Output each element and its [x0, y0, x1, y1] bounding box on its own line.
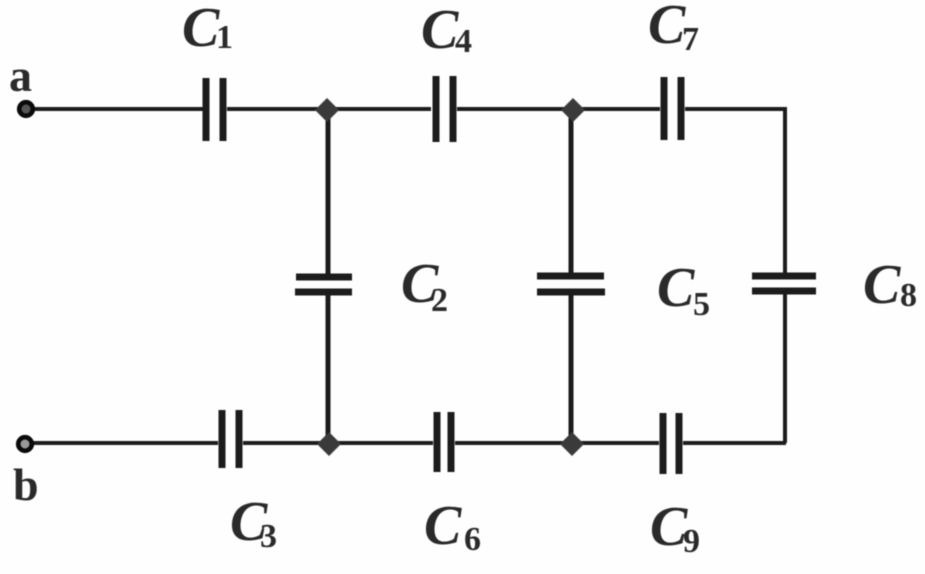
svg-text:6: 6	[464, 521, 481, 558]
wire bottom segment C6-C9	[455, 441, 659, 445]
wire top segment a-C1	[30, 107, 203, 111]
wire top segment C7-corner	[685, 107, 787, 111]
wire bottom segment b-C3	[30, 441, 218, 445]
capacitor C4	[436, 76, 453, 142]
wire top segment C4-C7	[457, 107, 660, 111]
wire vertical branch C8 lower	[783, 292, 787, 443]
label a	[9, 50, 32, 101]
svg-text:5: 5	[693, 286, 710, 323]
junction node top-right	[561, 98, 585, 122]
junction node top-left	[315, 98, 339, 122]
terminal b	[18, 437, 32, 451]
wire top segment C1-C4	[227, 107, 431, 111]
capacitor C8	[752, 276, 816, 291]
label C4	[421, 0, 472, 61]
svg-text:1: 1	[216, 19, 233, 56]
svg-text:b: b	[13, 459, 39, 510]
svg-text:C: C	[648, 0, 686, 56]
svg-text:8: 8	[900, 277, 917, 314]
svg-text:a: a	[9, 50, 32, 101]
capacitor C3	[222, 410, 239, 468]
svg-text:C: C	[863, 254, 901, 316]
svg-text:9: 9	[683, 523, 700, 560]
label b	[13, 459, 39, 510]
label C1	[182, 0, 233, 59]
svg-text:2: 2	[431, 282, 448, 319]
capacitor C5	[537, 276, 605, 292]
wire vertical branch C5 lower	[569, 293, 574, 443]
junction node bottom-right	[560, 432, 584, 456]
svg-text:C: C	[182, 0, 220, 59]
wire vertical branch C2 lower	[326, 293, 331, 443]
wire vertical branch C8 upper	[783, 109, 787, 275]
terminal a	[19, 102, 33, 116]
label C5	[657, 257, 710, 323]
svg-text:C: C	[424, 495, 462, 557]
label C8	[863, 254, 917, 316]
capacitor C2	[295, 277, 352, 292]
capacitor C6	[437, 412, 451, 472]
wire bottom segment C3-C6	[243, 441, 433, 445]
capacitor C1	[206, 78, 223, 141]
label C6	[424, 495, 481, 558]
label C7	[648, 0, 699, 58]
svg-text:3: 3	[260, 518, 277, 555]
wire vertical branch C2 upper	[326, 109, 331, 276]
svg-text:4: 4	[455, 23, 472, 60]
junction node bottom-left	[317, 432, 341, 456]
svg-text:C: C	[421, 0, 459, 61]
label C2	[401, 253, 448, 319]
wire bottom segment C9-corner	[683, 441, 786, 445]
label C3	[230, 491, 277, 555]
svg-text:C: C	[657, 257, 695, 319]
capacitor C9	[663, 413, 679, 474]
svg-text:7: 7	[682, 21, 699, 58]
wire vertical branch C5 upper	[569, 109, 574, 274]
label C9	[650, 496, 700, 560]
capacitor C7	[664, 77, 681, 140]
